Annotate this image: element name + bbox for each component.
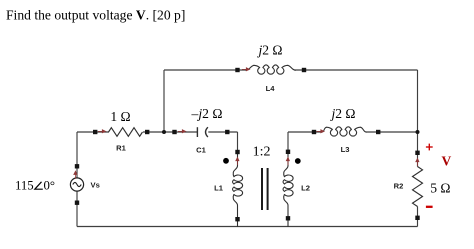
svg-text:–j2 Ω: –j2 Ω <box>191 106 223 121</box>
svg-text:R2: R2 <box>394 181 404 190</box>
svg-text:Vs: Vs <box>91 181 100 190</box>
svg-text:C1: C1 <box>196 145 206 154</box>
svg-text:0°: 0° <box>44 178 56 192</box>
svg-text:V: V <box>442 153 452 168</box>
svg-text:1:2: 1:2 <box>253 144 271 159</box>
svg-text:Find the output voltage V. [20: Find the output voltage V. [20 p] <box>6 8 185 23</box>
svg-text:j2 Ω: j2 Ω <box>329 106 355 121</box>
svg-text:L1: L1 <box>214 183 224 192</box>
svg-text:L2: L2 <box>301 183 310 192</box>
svg-text:L3: L3 <box>341 145 350 154</box>
svg-text:j2 Ω: j2 Ω <box>256 43 282 58</box>
svg-text:1 Ω: 1 Ω <box>110 109 130 124</box>
svg-text:5 Ω: 5 Ω <box>430 180 450 195</box>
svg-text:115: 115 <box>15 178 34 192</box>
svg-text:L4: L4 <box>266 84 276 93</box>
svg-text:R1: R1 <box>116 144 126 153</box>
